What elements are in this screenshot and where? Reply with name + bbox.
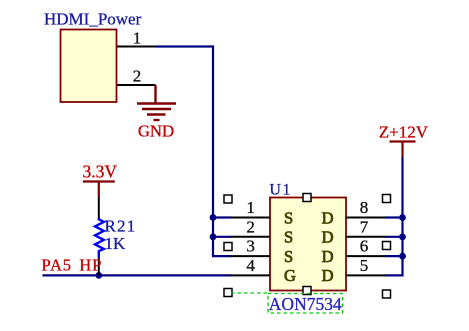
svg-text:D: D (322, 266, 334, 285)
svg-text:2: 2 (133, 67, 142, 86)
svg-text:2: 2 (246, 217, 255, 236)
svg-text:4: 4 (246, 256, 255, 275)
svg-text:AON7534: AON7534 (269, 294, 342, 314)
svg-text:R21: R21 (105, 216, 137, 235)
svg-text:1: 1 (246, 198, 255, 217)
svg-text:1K: 1K (105, 234, 127, 253)
svg-text:S: S (284, 208, 293, 227)
svg-text:7: 7 (360, 217, 369, 236)
svg-text:G: G (284, 266, 296, 285)
svg-text:GND: GND (138, 122, 174, 141)
svg-text:3: 3 (246, 237, 255, 256)
svg-text:HP: HP (79, 256, 102, 275)
svg-text:8: 8 (360, 198, 369, 217)
svg-text:Z+12V: Z+12V (379, 123, 429, 142)
svg-text:D: D (322, 247, 334, 266)
svg-text:HDMI_Power: HDMI_Power (44, 10, 142, 29)
svg-text:D: D (322, 208, 334, 227)
svg-text:D: D (322, 228, 334, 247)
svg-text:U1: U1 (269, 182, 292, 199)
svg-text:S: S (284, 247, 293, 266)
svg-text:1: 1 (133, 28, 142, 47)
svg-text:PA5: PA5 (42, 256, 72, 275)
svg-text:S: S (284, 228, 293, 247)
svg-text:5: 5 (360, 256, 369, 275)
svg-text:6: 6 (360, 237, 369, 256)
svg-text:3.3V: 3.3V (82, 162, 117, 182)
